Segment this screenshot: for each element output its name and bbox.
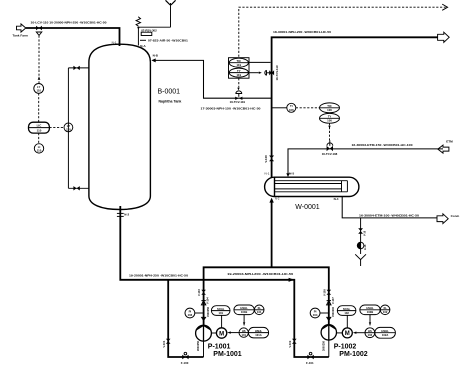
svg-text:V-107: V-107 bbox=[331, 297, 335, 304]
svg-text:101A: 101A bbox=[255, 333, 261, 337]
svg-text:PM-1001: PM-1001 bbox=[213, 351, 242, 358]
svg-text:HSHL: HSHL bbox=[255, 329, 263, 333]
svg-text:101: 101 bbox=[257, 310, 262, 314]
svg-text:16-TCV-108: 16-TCV-108 bbox=[322, 152, 338, 156]
svg-text:HSHL: HSHL bbox=[366, 306, 374, 310]
svg-text:XL: XL bbox=[257, 306, 261, 310]
svg-text:Naphtha Tank: Naphtha Tank bbox=[159, 100, 182, 104]
svg-text:V-108: V-108 bbox=[264, 155, 268, 163]
svg-text:F-101: F-101 bbox=[306, 361, 314, 365]
svg-text:103: 103 bbox=[188, 313, 193, 317]
svg-text:W-0001: W-0001 bbox=[295, 204, 319, 211]
svg-text:110: 110 bbox=[37, 129, 42, 133]
svg-text:N-A: N-A bbox=[140, 44, 146, 48]
svg-text:V-103: V-103 bbox=[197, 289, 201, 296]
svg-text:16-TCV-119: 16-TCV-119 bbox=[275, 65, 279, 80]
svg-text:N-2: N-2 bbox=[275, 197, 280, 201]
svg-text:N-1: N-1 bbox=[112, 41, 117, 45]
svg-text:N-1: N-1 bbox=[265, 171, 270, 175]
svg-text:106: 106 bbox=[289, 108, 294, 112]
svg-text:106: 106 bbox=[327, 108, 332, 112]
svg-text:HS: HS bbox=[368, 329, 372, 333]
svg-text:110: 110 bbox=[36, 89, 41, 93]
svg-text:HSHL: HSHL bbox=[240, 306, 248, 310]
svg-text:119: 119 bbox=[237, 63, 242, 67]
svg-text:HS: HS bbox=[242, 329, 246, 333]
svg-text:110: 110 bbox=[37, 149, 42, 153]
svg-text:102: 102 bbox=[368, 333, 373, 337]
svg-text:Tank Farm: Tank Farm bbox=[13, 34, 29, 38]
svg-text:16-TCV-119: 16-TCV-119 bbox=[230, 100, 246, 104]
svg-text:101: 101 bbox=[218, 311, 223, 315]
svg-text:106: 106 bbox=[327, 119, 332, 123]
svg-text:XL: XL bbox=[383, 306, 387, 310]
svg-text:10-LCV-110 10-20000-NPH-250 -W: 10-LCV-110 10-20000-NPH-250 -W10CB01-HC-… bbox=[31, 21, 107, 25]
svg-text:150X250: 150X250 bbox=[207, 306, 210, 317]
svg-text:HSHL: HSHL bbox=[381, 329, 389, 333]
svg-text:101B: 101B bbox=[241, 310, 247, 314]
svg-text:V-101: V-101 bbox=[162, 340, 166, 347]
svg-text:P-1001: P-1001 bbox=[208, 343, 231, 350]
svg-text:102: 102 bbox=[383, 310, 388, 314]
svg-text:V-102: V-102 bbox=[288, 340, 292, 347]
svg-text:102B: 102B bbox=[367, 310, 373, 314]
svg-text:V-16: V-16 bbox=[363, 230, 366, 236]
svg-text:F-100: F-100 bbox=[181, 361, 189, 365]
svg-text:101: 101 bbox=[241, 333, 246, 337]
svg-text:18-30001-NPH-200 -W40CB01-HC-5: 18-30001-NPH-200 -W40CB01-HC-50 bbox=[273, 30, 331, 34]
svg-text:SOAL: SOAL bbox=[343, 307, 351, 311]
svg-text:P-1002: P-1002 bbox=[334, 343, 357, 350]
svg-text:SOAL: SOAL bbox=[217, 307, 225, 311]
svg-text:M: M bbox=[219, 331, 224, 337]
svg-text:16-30004-ETM-100 -W40CB01-HC-5: 16-30004-ETM-100 -W40CB01-HC-50 bbox=[359, 213, 419, 217]
svg-text:07-823-AIR-50 -W10CB01: 07-823-AIR-50 -W10CB01 bbox=[148, 38, 188, 42]
svg-text:102: 102 bbox=[344, 311, 349, 315]
svg-text:V-105: V-105 bbox=[322, 289, 326, 296]
svg-text:17-30003-NPH-150 -W10CB01-HC-5: 17-30003-NPH-150 -W10CB01-HC-50 bbox=[201, 106, 261, 110]
svg-text:N-B: N-B bbox=[153, 53, 159, 57]
svg-text:N-2: N-2 bbox=[124, 212, 129, 216]
svg-text:200X250: 200X250 bbox=[197, 340, 200, 351]
svg-text:N-5: N-5 bbox=[289, 171, 294, 175]
svg-text:200X250: 200X250 bbox=[322, 340, 325, 351]
svg-text:119: 119 bbox=[237, 73, 242, 77]
svg-text:19-20001-NPH-250 -W10CB01-HC-5: 19-20001-NPH-250 -W10CB01-HC-50 bbox=[129, 273, 188, 277]
svg-text:PM-1002: PM-1002 bbox=[339, 351, 368, 358]
svg-text:150X200: 150X200 bbox=[332, 306, 335, 317]
svg-text:104: 104 bbox=[313, 313, 318, 317]
svg-text:V-104: V-104 bbox=[206, 297, 210, 304]
svg-text:19-20003-NPH-200 -W10CB01-HC-5: 19-20003-NPH-200 -W10CB01-HC-50 bbox=[227, 272, 293, 276]
svg-text:16-30003-ETM-150 -W40CB01-HC-1: 16-30003-ETM-150 -W40CB01-HC-100 bbox=[352, 143, 413, 147]
svg-text:N-4: N-4 bbox=[334, 197, 339, 201]
svg-text:B-0001: B-0001 bbox=[158, 89, 181, 96]
svg-text:M: M bbox=[345, 331, 350, 337]
svg-text:102A: 102A bbox=[382, 333, 388, 337]
svg-text:ETM: ETM bbox=[446, 139, 453, 143]
svg-text:Cond.: Cond. bbox=[451, 214, 460, 218]
svg-text:A-16: A-16 bbox=[364, 244, 367, 250]
